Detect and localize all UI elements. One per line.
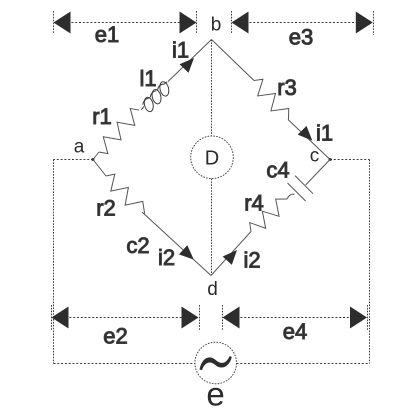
- wire c right stub: [330, 159, 370, 161]
- svg-text:c4: c4: [266, 158, 289, 183]
- arrowhead i2 lower-right arm: [223, 246, 242, 265]
- wire e4 dimension line: [229, 317, 361, 319]
- wire bottom right: [237, 363, 370, 365]
- junction node a: [92, 158, 95, 161]
- svg-text:r2: r2: [96, 196, 116, 221]
- wire D to d: [211, 179, 213, 276]
- wire r2 to d: [142, 212, 211, 276]
- svg-text:c2: c2: [126, 233, 149, 258]
- resistor r2: [101, 171, 150, 219]
- detector D circle: [191, 136, 234, 179]
- arrowhead e4 right: [350, 307, 367, 329]
- wire bottom left: [54, 363, 195, 365]
- arrowhead i1 upper-right arm: [298, 126, 317, 145]
- tick e4 right: [367, 305, 369, 330]
- arrowhead e2 left: [52, 307, 69, 329]
- wire c4 to c: [306, 160, 330, 186]
- wire b to D: [211, 40, 213, 137]
- svg-text:e4: e4: [283, 319, 307, 344]
- svg-text:l1: l1: [139, 66, 156, 91]
- svg-text:i1: i1: [172, 38, 189, 63]
- svg-text:r4: r4: [244, 191, 264, 216]
- AC source sine symbol: [200, 356, 232, 370]
- resistor r4: [246, 193, 292, 237]
- arrowhead i2 lower-left arm: [179, 245, 198, 264]
- AC source circle: [195, 342, 237, 384]
- wire b to r3 (upper right arm): [212, 40, 255, 81]
- tick e2 right: [199, 305, 201, 330]
- wire e3 dimension line: [238, 22, 366, 24]
- tick e4 left: [222, 305, 224, 330]
- junction node c: [329, 158, 332, 161]
- arrowhead e3 right: [356, 12, 373, 34]
- svg-text:D: D: [205, 148, 219, 170]
- arrowhead e1 left: [54, 12, 71, 34]
- wire a to r2: [93, 160, 106, 177]
- svg-text:r3: r3: [277, 75, 297, 100]
- svg-text:i2: i2: [158, 245, 175, 270]
- inductor L1: [136, 78, 175, 117]
- svg-text:b: b: [211, 15, 222, 36]
- wire d to r4: [211, 232, 251, 276]
- tick e3 right: [373, 11, 375, 35]
- arrowhead i1 upper-left arm: [180, 54, 199, 73]
- capacitor c4 plate upper: [295, 176, 313, 194]
- wire e1 dimension line: [60, 22, 191, 24]
- svg-text:r1: r1: [92, 104, 112, 129]
- wire left vertical: [53, 160, 55, 364]
- svg-text:i1: i1: [316, 121, 333, 146]
- wire r4 to c4: [287, 194, 294, 199]
- arrowhead e1 right: [180, 12, 197, 34]
- svg-text:e2: e2: [103, 324, 127, 349]
- wire e2 dimension line: [58, 317, 192, 319]
- tick e1 right: [196, 11, 198, 33]
- wire a to r1: [93, 152, 99, 160]
- svg-text:i2: i2: [243, 248, 260, 273]
- svg-text:c: c: [310, 146, 320, 167]
- resistor r1: [94, 105, 145, 157]
- svg-text:e3: e3: [289, 25, 313, 50]
- tick e2 left: [51, 305, 53, 330]
- tick e3 left: [231, 11, 233, 33]
- resistor r3: [248, 76, 294, 125]
- capacitor c4 plate lower: [288, 183, 306, 201]
- arrowhead e2 right: [182, 307, 199, 329]
- svg-text:d: d: [207, 279, 218, 300]
- arrowhead e4 left: [223, 307, 240, 329]
- arrowhead e3 left: [232, 12, 249, 34]
- wire a left stub: [54, 159, 94, 161]
- wire b to l1 (upper left arm): [168, 40, 212, 82]
- wire right vertical: [369, 160, 371, 364]
- wire r3 to c: [288, 120, 330, 160]
- svg-text:e: e: [206, 376, 224, 410]
- tick e1 left: [53, 11, 55, 34]
- svg-text:a: a: [74, 137, 85, 158]
- svg-text:e1: e1: [95, 22, 119, 47]
